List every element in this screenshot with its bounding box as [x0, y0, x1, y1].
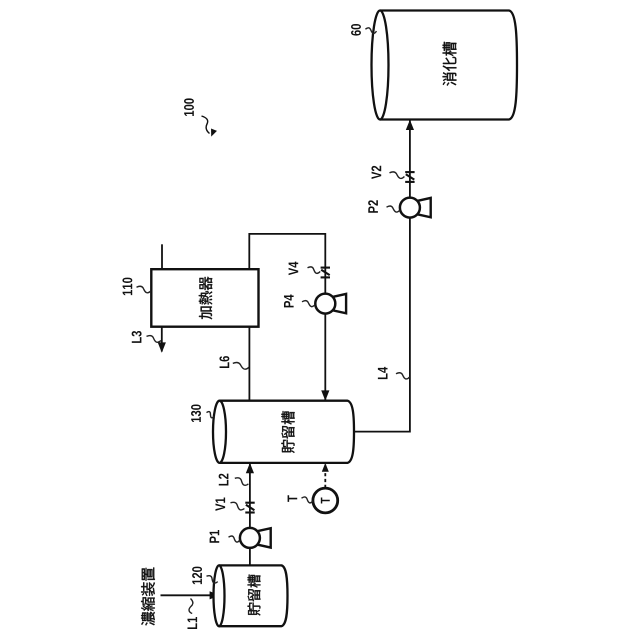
label 100 overall — [184, 98, 194, 116]
valve V4 — [321, 268, 330, 278]
label 60 — [351, 24, 361, 36]
wire L1 inlet arrow — [161, 594, 219, 596]
pump P2 — [415, 198, 431, 217]
label P2 — [368, 200, 378, 213]
label concentration device — [141, 568, 155, 626]
label L2 — [219, 474, 229, 486]
wire heater vent stub — [161, 244, 163, 269]
label 120 — [192, 567, 202, 585]
label L4 — [378, 367, 388, 379]
wire T sensor dashed — [324, 465, 326, 488]
label T — [288, 495, 298, 502]
pump P4 — [330, 294, 346, 313]
label L1 — [187, 617, 197, 629]
label V1 — [215, 498, 225, 511]
label V4 — [289, 262, 299, 276]
tank 120 storage tank — [219, 565, 288, 626]
wire heater outlet to P4 line — [249, 234, 325, 400]
tank 60 digestion tank — [380, 11, 517, 120]
label L3 — [132, 331, 142, 343]
heater 110 — [151, 269, 258, 327]
label P1 — [210, 530, 220, 543]
label 110 — [122, 278, 132, 296]
temperature sensor T — [313, 488, 338, 513]
label L6 — [219, 356, 229, 368]
label P4 — [284, 295, 294, 308]
wire L6 heater to tank130 — [248, 327, 250, 401]
valve V1 — [245, 503, 254, 513]
tank 130 storage tank — [220, 401, 355, 463]
wire L3 drain arrow — [161, 327, 163, 352]
valve V2 — [405, 172, 414, 182]
wire L4 tank130 to tank60 — [353, 121, 410, 432]
label V2 — [371, 166, 381, 179]
pump P1 — [255, 528, 271, 547]
label 130 — [191, 405, 201, 423]
wire L2 tank120 to tank130 — [249, 464, 251, 566]
